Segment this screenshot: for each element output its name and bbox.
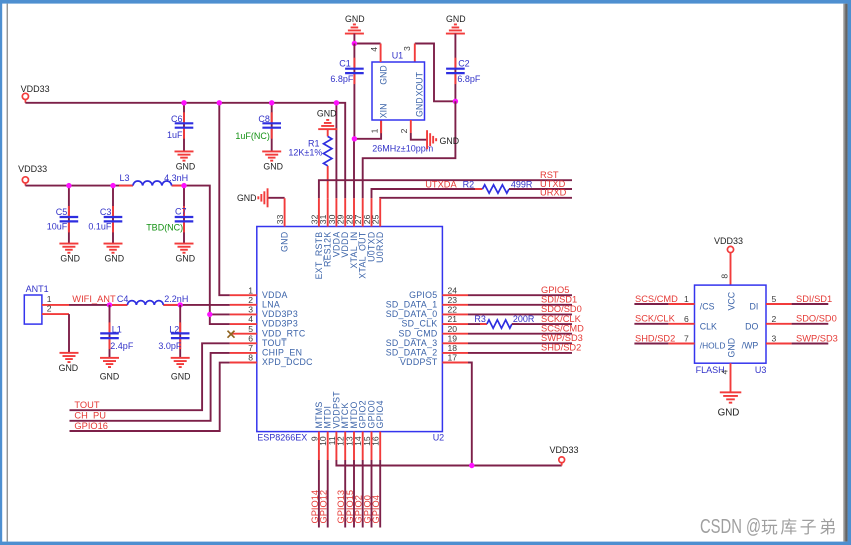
svg-text:5: 5	[248, 324, 253, 334]
svg-text:GND: GND	[237, 193, 257, 203]
svg-text:SCK/CLK: SCK/CLK	[635, 314, 676, 324]
ground (above C1)	[345, 14, 365, 34]
svg-text:1uF(NC): 1uF(NC)	[235, 131, 270, 141]
ground (below ANT1)	[59, 352, 79, 373]
svg-text:4: 4	[720, 369, 730, 374]
U2 right pin numbers	[448, 285, 458, 362]
resistor R1 12K	[288, 129, 331, 198]
svg-text:SWP/SD3: SWP/SD3	[796, 333, 838, 343]
wire GPIO13 net (U2 pin 12)	[344, 460, 346, 528]
capacitor C6	[167, 103, 193, 152]
wire TOUT net (to U2 pin 6)	[70, 343, 230, 410]
svg-text:SDO/SD0: SDO/SD0	[541, 304, 582, 314]
power terminal VDD33 (above U3)	[714, 236, 743, 285]
wire XTAL_OUT (C2 to U2 pin 27)	[363, 101, 456, 198]
svg-text:7: 7	[684, 334, 689, 344]
svg-text:VDD33: VDD33	[18, 164, 47, 174]
U2 left pin numbers	[248, 285, 253, 362]
wire U2 pin 33 to ground	[268, 197, 285, 199]
capacitor C1 6.8pF	[330, 44, 363, 139]
wire GPIO2 net (U2 pin 14)	[362, 460, 364, 528]
svg-text:VDDA: VDDA	[262, 290, 288, 300]
power terminal VDD33 (top left)	[21, 84, 50, 103]
wire SDI/SD1 net	[468, 304, 572, 306]
wire VDD33 second rail	[25, 186, 229, 325]
power terminal VDD33 (bottom middle)	[549, 445, 578, 466]
wire GPIO16 net (to U2 pin 8 XPD_DCDC)	[70, 363, 230, 431]
svg-text:1uF: 1uF	[167, 130, 183, 140]
svg-text:GND: GND	[378, 65, 388, 85]
svg-text:U2: U2	[433, 432, 445, 442]
U2 bottom pin names	[314, 391, 385, 429]
svg-text:4: 4	[248, 314, 253, 324]
svg-text:GND: GND	[414, 97, 424, 117]
ground (sideways, left of U2 pin 33)	[237, 188, 269, 207]
svg-text:C3: C3	[100, 207, 112, 217]
inductor C4 2.2nH	[111, 294, 188, 305]
crystal U1	[372, 44, 425, 121]
svg-text:200R: 200R	[513, 314, 535, 324]
junction	[453, 99, 458, 104]
ground (below C3)	[104, 243, 125, 264]
junction	[334, 100, 339, 105]
junction	[178, 302, 183, 307]
capacitor L2 3.0pF	[158, 305, 189, 358]
svg-text:GND: GND	[100, 371, 120, 381]
svg-text:GND: GND	[171, 371, 191, 381]
svg-text:VDDPST: VDDPST	[400, 357, 438, 367]
svg-text:GND: GND	[446, 14, 466, 24]
svg-text:R2: R2	[463, 179, 475, 189]
svg-text:CH_PU: CH_PU	[74, 411, 106, 421]
svg-text:C2: C2	[458, 59, 470, 69]
svg-text:/CS: /CS	[700, 302, 715, 312]
svg-text:3: 3	[248, 305, 253, 315]
svg-text:VDD33: VDD33	[549, 445, 578, 455]
svg-text:SCS/CMD: SCS/CMD	[635, 294, 678, 304]
svg-text:GND: GND	[280, 232, 290, 252]
wire SDO/SD0 net	[468, 313, 572, 315]
svg-text:24: 24	[448, 285, 458, 295]
svg-text:3: 3	[772, 334, 777, 344]
resistor R3 200R	[474, 314, 535, 328]
svg-text:4.3nH: 4.3nH	[164, 173, 188, 183]
svg-text:7: 7	[248, 343, 253, 353]
ground (below C5)	[59, 243, 80, 264]
U2 top pin names	[280, 231, 386, 279]
junction	[269, 100, 274, 105]
svg-text:GND: GND	[718, 408, 740, 419]
svg-text:1: 1	[369, 128, 379, 133]
wire GPIO0 net (U2 pin 15)	[371, 460, 373, 528]
svg-text:GND: GND	[176, 254, 196, 264]
wire SWP/SD3 net (U3 pin 3)	[792, 343, 829, 345]
wire GPIO5 net	[468, 294, 572, 296]
capacitor C2 6.8pF	[446, 34, 481, 102]
svg-text:33: 33	[275, 214, 285, 224]
svg-text:U0RXD: U0RXD	[375, 232, 385, 263]
svg-text:XIN: XIN	[378, 104, 388, 119]
svg-text:SHD/SD2: SHD/SD2	[541, 343, 581, 353]
U1 pin numbers	[369, 46, 412, 133]
svg-text:DO: DO	[745, 321, 758, 331]
svg-text:SHD/SD2: SHD/SD2	[635, 333, 675, 343]
svg-text:TOUT: TOUT	[74, 400, 99, 410]
svg-text:SD_DATA_3: SD_DATA_3	[386, 338, 438, 348]
U3 left pins	[668, 304, 730, 392]
svg-text:ANT1: ANT1	[26, 284, 49, 294]
svg-text:GND: GND	[263, 162, 283, 172]
wire VDDPST net (U2 pin 17 and pin 11 to VDD33)	[336, 363, 561, 466]
svg-text:TOUT: TOUT	[262, 338, 287, 348]
capacitor C7 TBD	[146, 186, 193, 244]
svg-text:SD_CMD: SD_CMD	[399, 328, 438, 338]
svg-text:18: 18	[448, 343, 458, 353]
svg-text:16: 16	[371, 436, 381, 446]
svg-text:17: 17	[448, 353, 458, 363]
wire SCK/CLK net (U3 pin 6)	[634, 323, 668, 325]
svg-text:GND: GND	[726, 338, 736, 358]
svg-text:GND: GND	[60, 254, 80, 264]
svg-text:6.8pF: 6.8pF	[330, 74, 354, 84]
svg-text:TBD(NC): TBD(NC)	[146, 223, 183, 233]
svg-text:CHIP_EN: CHIP_EN	[262, 348, 302, 358]
junction	[181, 183, 186, 188]
junction	[207, 312, 212, 317]
svg-text:3: 3	[402, 46, 412, 51]
svg-text:SD_DATA_2: SD_DATA_2	[386, 348, 438, 358]
wire SCS/CMD net	[468, 333, 572, 335]
svg-text:CSDN @: CSDN @	[700, 515, 761, 538]
U2 top pins 33,32-25	[285, 198, 381, 226]
svg-text:/WP: /WP	[742, 341, 759, 351]
U2 top pin numbers	[275, 214, 381, 224]
svg-text:GPIO5: GPIO5	[409, 290, 437, 300]
svg-text:12K±1%: 12K±1%	[288, 148, 322, 158]
capacitor C8	[235, 103, 281, 152]
junction	[352, 136, 357, 141]
capacitor C3 0.1uF	[88, 186, 122, 244]
ground (below C8)	[262, 151, 283, 172]
wire GPIO4 net (U2 pin 16)	[379, 460, 381, 528]
svg-text:VDD33: VDD33	[714, 236, 743, 246]
svg-text:GND: GND	[105, 254, 125, 264]
wire GPIO15 net (U2 pin 13)	[353, 460, 355, 528]
wire XOUT (U1 pin 3 to C2)	[415, 44, 456, 102]
svg-text:8: 8	[248, 353, 253, 363]
wire WIFI_ANT net	[69, 304, 230, 306]
svg-text:/HOLD: /HOLD	[700, 341, 726, 351]
svg-text:CLK: CLK	[700, 321, 717, 331]
svg-text:2: 2	[772, 314, 777, 324]
svg-text:6.8pF: 6.8pF	[457, 74, 481, 84]
junction	[107, 302, 112, 307]
svg-text:GND: GND	[440, 136, 460, 146]
wire URXD net (U2 pin 25 U0RXD)	[380, 197, 572, 199]
U3 pin numbers	[684, 274, 776, 375]
U3 right pins	[766, 304, 792, 344]
svg-text:VDD3P3: VDD3P3	[262, 319, 298, 329]
svg-text:L1: L1	[112, 324, 122, 334]
no-connect X on U2 pin 5 VDD_RTC	[228, 331, 235, 338]
wire SHD/SD2 net (U3 pin 7)	[634, 343, 668, 345]
svg-text:UTXDA: UTXDA	[425, 179, 457, 189]
ground (above R1)	[317, 109, 337, 130]
svg-text:LNA: LNA	[262, 299, 280, 309]
U2 bottom pin numbers	[309, 436, 380, 446]
svg-text:GND: GND	[317, 109, 337, 119]
wire VDD33 to U2 pin 30 VDDA	[335, 103, 337, 198]
svg-text:GPIO4: GPIO4	[375, 400, 385, 428]
svg-text:6: 6	[248, 333, 253, 343]
resistor R2 499R	[463, 179, 533, 193]
junction	[217, 100, 222, 105]
svg-text:3.0pF: 3.0pF	[158, 341, 182, 351]
svg-text:2: 2	[248, 295, 253, 305]
svg-text:SDI/SD1: SDI/SD1	[796, 294, 832, 304]
svg-text:GPIO4: GPIO4	[371, 495, 381, 523]
wire CH_PU net (to U2 pin 7 CHIP_EN)	[70, 353, 230, 421]
svg-text:GND: GND	[345, 14, 365, 24]
op-amp U2 ESP8266EX main IC	[257, 227, 444, 443]
svg-text:URXD: URXD	[540, 188, 567, 198]
svg-text:L3: L3	[120, 173, 130, 183]
junction	[469, 463, 474, 468]
inductor L3 4.3nH	[119, 173, 188, 185]
svg-text:6: 6	[684, 314, 689, 324]
svg-text:2.2nH: 2.2nH	[164, 294, 188, 304]
svg-text:GPIO12: GPIO12	[319, 490, 329, 524]
svg-text:21: 21	[448, 314, 458, 324]
svg-text:SDI/SD1: SDI/SD1	[541, 295, 577, 305]
ground (below C6)	[175, 151, 196, 172]
svg-text:GPIO16: GPIO16	[74, 421, 108, 431]
svg-text:SD_CLK: SD_CLK	[401, 319, 437, 329]
svg-text:GND: GND	[59, 363, 79, 373]
wire SWP/SD3 net	[468, 342, 572, 344]
svg-text:25: 25	[371, 214, 381, 224]
junction	[181, 100, 186, 105]
wire UTXD net left (U2 pin 26 U0TXD to R2)	[372, 189, 483, 198]
ANT1 pin numbers	[47, 294, 52, 313]
wire SDO/SD0 net (U3 pin 2)	[792, 323, 829, 325]
U2 right pin names	[386, 290, 438, 367]
svg-text:499R: 499R	[511, 179, 533, 189]
svg-text:C7: C7	[175, 206, 187, 216]
wire UTXD net right	[509, 188, 572, 190]
svg-text:C8: C8	[258, 114, 270, 124]
wire SCK/CLK net right	[512, 323, 572, 325]
svg-text:VCC: VCC	[726, 291, 736, 310]
svg-text:ESP8266EX: ESP8266EX	[257, 432, 307, 442]
svg-text:2.4pF: 2.4pF	[110, 341, 134, 351]
U2 right pins 24-17	[442, 295, 468, 362]
wire GND to crystal U1 pin 4	[354, 34, 380, 44]
svg-text:VDD3P3: VDD3P3	[262, 309, 298, 319]
wire to U2 pin 3 VDD3P3	[210, 313, 230, 315]
wire ANT1 pin 2 to ground	[68, 314, 70, 353]
wire VDD33 top rail	[25, 103, 345, 198]
wire GPIO14 net (U2 pin 9)	[318, 460, 320, 528]
wire XIN net (C1 / U1 pin 1 / U2 pin 28 XTAL_IN)	[354, 120, 381, 198]
flash memory U3	[695, 285, 767, 375]
svg-text:GPIO5: GPIO5	[541, 285, 569, 295]
svg-text:VDD_RTC: VDD_RTC	[262, 328, 306, 338]
svg-text:C1: C1	[339, 59, 351, 69]
svg-text:R3: R3	[474, 314, 486, 324]
svg-text:1: 1	[684, 294, 689, 304]
U2 bottom pins 9-16	[319, 432, 380, 460]
U2 left pins 1-8	[230, 295, 257, 362]
capacitor L1 2.4pF	[100, 305, 134, 358]
svg-text:2: 2	[47, 303, 52, 313]
svg-text:SDO/SD0: SDO/SD0	[796, 314, 837, 324]
svg-text:SWP/SD3: SWP/SD3	[541, 333, 583, 343]
svg-text:2: 2	[399, 128, 409, 133]
ground (below C7)	[175, 243, 196, 264]
ground (below L1)	[100, 357, 120, 381]
U3 pin names	[700, 291, 759, 357]
ground (above C2)	[446, 14, 466, 34]
svg-text:GND: GND	[176, 162, 196, 172]
junction	[352, 41, 357, 46]
power terminal VDD33 (left, second rail)	[18, 164, 47, 185]
svg-text:VDD33: VDD33	[21, 84, 50, 94]
svg-text:20: 20	[448, 324, 458, 334]
wire SCK/CLK net left (U2 pin 21 to R3)	[468, 323, 487, 325]
ground (below L2)	[171, 357, 191, 381]
junction	[66, 183, 71, 188]
ground (below U3)	[718, 391, 742, 418]
svg-text:0.1uF: 0.1uF	[88, 222, 112, 232]
wire SCS/CMD net (U3 pin 1)	[634, 303, 668, 305]
ground (sideways, right of U1 pin 2)	[426, 130, 459, 149]
svg-text:8: 8	[720, 274, 730, 279]
svg-text:10uF: 10uF	[47, 222, 68, 232]
svg-text:SD_DATA_0: SD_DATA_0	[386, 309, 438, 319]
svg-text:22: 22	[448, 305, 458, 315]
svg-text:C4: C4	[117, 294, 129, 304]
wire SDI/SD1 net (U3 pin 5)	[792, 303, 829, 305]
svg-text:4: 4	[369, 47, 379, 52]
svg-text:U1: U1	[392, 51, 404, 61]
junction	[110, 183, 115, 188]
svg-text:U3: U3	[755, 365, 767, 375]
svg-text:SCK/CLK: SCK/CLK	[541, 314, 582, 324]
wire RST net (U2 pin 32 EXT_RSTB)	[319, 180, 572, 198]
svg-text:26MHz±10ppm: 26MHz±10ppm	[372, 144, 433, 154]
svg-text:C6: C6	[171, 114, 183, 124]
svg-text:C5: C5	[56, 207, 68, 217]
svg-text:1: 1	[248, 285, 253, 295]
svg-text:XOUT: XOUT	[414, 71, 424, 96]
wire U1 pin 2 to ground	[411, 120, 427, 140]
svg-text:23: 23	[448, 295, 458, 305]
svg-text:19: 19	[448, 333, 458, 343]
U2 left pin names	[262, 290, 313, 367]
svg-text:DI: DI	[749, 302, 758, 312]
wire SHD/SD2 net	[468, 352, 572, 354]
svg-text:XPD_DCDC: XPD_DCDC	[262, 357, 313, 367]
antenna ANT1	[24, 284, 69, 324]
capacitor C5 10uF	[47, 186, 78, 244]
wire VDD33 to U2 pin 1 VDDA	[219, 103, 230, 295]
svg-text:SD_DATA_1: SD_DATA_1	[386, 299, 438, 309]
svg-text:L2: L2	[169, 324, 179, 334]
svg-text:5: 5	[772, 294, 777, 304]
wire GPIO12 net (U2 pin 10)	[327, 460, 329, 528]
